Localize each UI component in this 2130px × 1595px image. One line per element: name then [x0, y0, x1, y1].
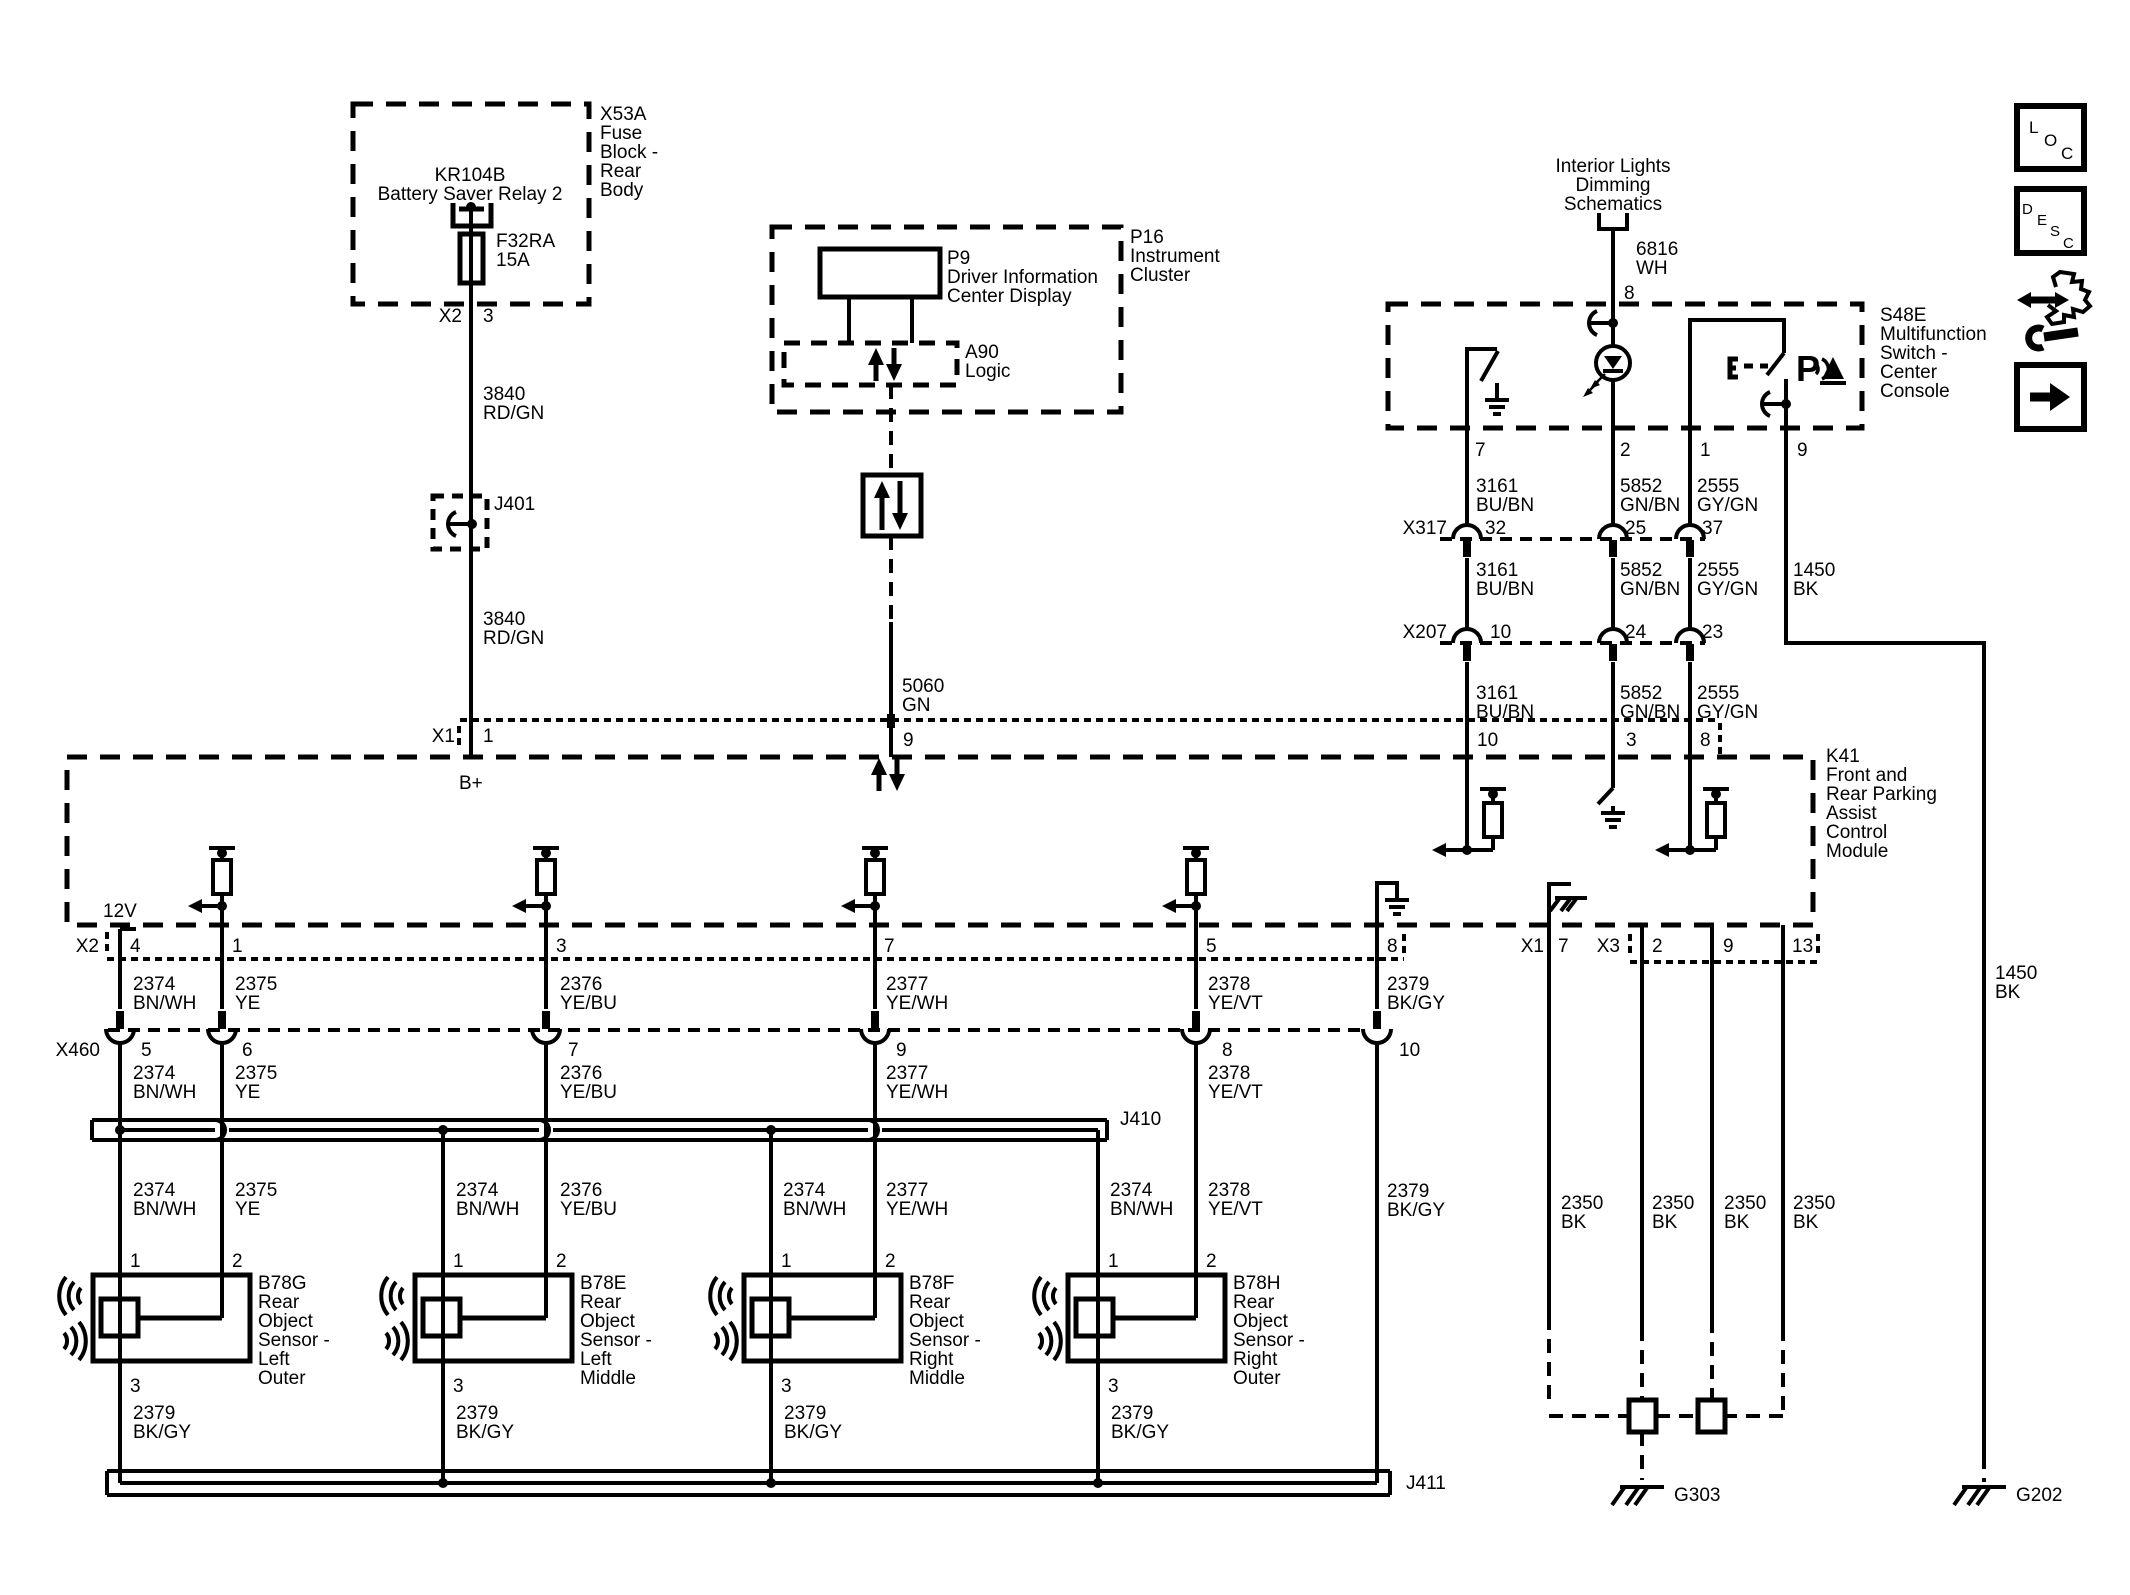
wire 2376 YE/BU [544, 925, 548, 1009]
icon DESC box [2017, 189, 2084, 253]
svg-text:GN/BN: GN/BN [1620, 495, 1680, 516]
svg-text:BK: BK [1793, 1212, 1819, 1233]
svg-text:C: C [2063, 235, 2074, 252]
svg-text:BN/WH: BN/WH [133, 1199, 196, 1220]
svg-text:12V: 12V [103, 901, 137, 922]
svg-text:YE/BU: YE/BU [560, 1082, 617, 1103]
sensor B78F Rear Object Sensor [744, 1275, 901, 1361]
wire to LED [1611, 304, 1615, 346]
svg-text:Object: Object [909, 1311, 965, 1332]
internal chassis ground X1-7 [1549, 884, 1571, 925]
svg-text:B78E: B78E [580, 1273, 626, 1294]
svg-text:13: 13 [1792, 936, 1813, 957]
svg-text:Rear: Rear [580, 1292, 622, 1313]
wire relay to fuse [469, 209, 473, 234]
svg-text:2379: 2379 [456, 1403, 498, 1424]
svg-text:Rear: Rear [1233, 1292, 1275, 1313]
svg-text:3161: 3161 [1476, 560, 1518, 581]
wire 3161 BU/BN S48E pin 7 to X317 pin 32 [1465, 428, 1469, 525]
svg-text:A90: A90 [965, 342, 999, 363]
svg-text:J401: J401 [494, 494, 535, 515]
connector J401 [433, 496, 487, 549]
svg-text:Outer: Outer [258, 1368, 306, 1389]
svg-text:5: 5 [1206, 936, 1217, 957]
wire 2377 YE/WH over J410 to sensor pin 2 [873, 1044, 877, 1318]
wire 2377 YE/WH [873, 925, 877, 1009]
svg-text:G202: G202 [2016, 1485, 2062, 1506]
svg-text:3: 3 [483, 306, 494, 327]
wire 2379 BK/GY from B78F [769, 1361, 773, 1483]
ground G303 [1620, 1485, 1664, 1489]
svg-text:10: 10 [1399, 1040, 1420, 1061]
svg-text:Middle: Middle [580, 1368, 636, 1389]
svg-text:Sensor -: Sensor - [580, 1330, 652, 1351]
svg-text:BU/BN: BU/BN [1476, 579, 1534, 600]
svg-text:5: 5 [141, 1040, 152, 1061]
svg-text:Object: Object [1233, 1311, 1289, 1332]
icon harness/wrench [2030, 297, 2056, 304]
svg-text:3: 3 [781, 1376, 792, 1397]
svg-text:GN: GN [902, 695, 931, 716]
svg-text:4: 4 [130, 936, 141, 957]
svg-text:8: 8 [1700, 730, 1711, 751]
icon LOC box [2017, 106, 2084, 169]
wire 1450 BK to G202 [1786, 428, 1984, 1455]
wire 2379 BK/GY [1375, 925, 1379, 1009]
wire 2378 YE/VT over J410 to sensor pin 2 [1194, 1044, 1198, 1318]
lamp branch: hook [1589, 311, 1597, 335]
svg-text:2: 2 [885, 1251, 896, 1272]
svg-text:Body: Body [600, 180, 644, 201]
svg-text:2374: 2374 [133, 974, 176, 995]
svg-text:Outer: Outer [1233, 1368, 1281, 1389]
J411 splice junction at x=443 [438, 1478, 448, 1488]
svg-text:BN/WH: BN/WH [456, 1199, 519, 1220]
svg-text:B+: B+ [459, 773, 483, 794]
svg-text:YE/WH: YE/WH [886, 1199, 948, 1220]
svg-text:2376: 2376 [560, 1180, 602, 1201]
svg-text:8: 8 [1222, 1040, 1233, 1061]
svg-text:P16: P16 [1130, 227, 1164, 248]
connector X460 cavity at wire x=875 [871, 1011, 879, 1029]
wire 2374 BN/WH J410 to B78F pin 1 [769, 1130, 773, 1275]
svg-text:5852: 5852 [1620, 476, 1662, 497]
svg-text:1: 1 [781, 1251, 792, 1272]
svg-text:1: 1 [130, 1251, 141, 1272]
fuse block X53A dashed box [353, 104, 589, 304]
svg-text:2374: 2374 [133, 1063, 176, 1084]
serial data link symbol [863, 475, 921, 536]
svg-text:Front and: Front and [1826, 765, 1907, 786]
connector X460 cavity at wire x=546 [542, 1011, 550, 1029]
svg-text:Middle: Middle [909, 1368, 965, 1389]
svg-text:Sensor -: Sensor - [1233, 1330, 1305, 1351]
svg-text:2376: 2376 [560, 1063, 602, 1084]
svg-text:X317: X317 [1403, 518, 1447, 539]
svg-text:B78F: B78F [909, 1273, 954, 1294]
svg-text:Console: Console [1880, 381, 1950, 402]
svg-text:D: D [2022, 201, 2033, 218]
svg-text:2374: 2374 [133, 1180, 176, 1201]
svg-text:3: 3 [1626, 730, 1637, 751]
wire 5852 GN/BN S48E pin 2 to X317 pin 25 [1611, 428, 1615, 525]
svg-text:G303: G303 [1674, 1485, 1720, 1506]
svg-text:3161: 3161 [1476, 476, 1518, 497]
svg-text:BN/WH: BN/WH [783, 1199, 846, 1220]
svg-text:Control: Control [1826, 822, 1887, 843]
E-- icon [1730, 359, 1738, 377]
resistor pull-up to 12V on wire 2375 [209, 846, 235, 850]
svg-text:2376: 2376 [560, 974, 602, 995]
wire P9 legs [847, 297, 851, 343]
svg-text:Rear: Rear [600, 161, 642, 182]
svg-text:Sensor -: Sensor - [258, 1330, 330, 1351]
sensor B78H Rear Object Sensor [1068, 1275, 1225, 1361]
splice boxes [1629, 1400, 1656, 1432]
svg-text:1: 1 [1108, 1251, 1119, 1272]
svg-text:6816: 6816 [1636, 239, 1678, 260]
svg-text:2374: 2374 [1110, 1180, 1153, 1201]
svg-text:Instrument: Instrument [1130, 246, 1220, 267]
svg-text:Schematics: Schematics [1564, 194, 1662, 215]
resistor pull-up to 12V on wire 2377 [862, 846, 888, 850]
svg-text:1: 1 [1700, 440, 1711, 461]
J410 splice junction at x=771 [766, 1125, 776, 1135]
svg-text:10: 10 [1490, 622, 1511, 643]
svg-text:2375: 2375 [235, 1180, 277, 1201]
svg-text:Right: Right [909, 1349, 954, 1370]
svg-text:X2: X2 [76, 936, 99, 957]
connector X207 cavity pin 24 [1599, 629, 1627, 643]
svg-text:Assist: Assist [1826, 803, 1877, 824]
svg-text:X53A: X53A [600, 104, 647, 125]
svg-text:2: 2 [1652, 936, 1663, 957]
svg-text:X3: X3 [1597, 936, 1620, 957]
logic A90 dashed box [784, 343, 957, 385]
svg-text:2379: 2379 [1387, 974, 1429, 995]
svg-text:3: 3 [556, 936, 567, 957]
svg-text:C: C [2061, 144, 2073, 163]
svg-text:Left: Left [258, 1349, 290, 1370]
connector X460 cavity at wire x=120 [116, 1011, 124, 1029]
svg-text:Battery Saver Relay 2: Battery Saver Relay 2 [378, 184, 563, 205]
resistor pull-up to 12V on wire 2376 [533, 846, 559, 850]
svg-text:L: L [2029, 118, 2038, 137]
wire pin4 tick [120, 927, 136, 931]
svg-text:2379: 2379 [1111, 1403, 1153, 1424]
svg-text:Interior Lights: Interior Lights [1555, 156, 1670, 177]
svg-text:RD/GN: RD/GN [483, 628, 544, 649]
svg-text:9: 9 [1723, 936, 1734, 957]
svg-text:YE/WH: YE/WH [886, 993, 948, 1014]
ground G202 [1962, 1485, 2006, 1489]
svg-text:2377: 2377 [886, 1063, 928, 1084]
svg-text:Center Display: Center Display [947, 286, 1072, 307]
svg-text:5060: 5060 [902, 676, 944, 697]
icon next-arrow box [2017, 365, 2084, 429]
svg-text:2378: 2378 [1208, 1180, 1250, 1201]
svg-text:2: 2 [1620, 440, 1631, 461]
serial data arrows in A90 [874, 364, 879, 381]
svg-text:Sensor -: Sensor - [909, 1330, 981, 1351]
wire 5852 GN/BN X207 to K41 X1 pin 3 [1611, 662, 1615, 788]
svg-text:X207: X207 [1403, 622, 1447, 643]
sensor B78G Rear Object Sensor [93, 1275, 250, 1361]
svg-text:9: 9 [903, 730, 914, 751]
svg-text:GY/GN: GY/GN [1697, 495, 1758, 516]
J410 conductor hop over wire at x=546 [539, 1120, 549, 1140]
switch to ground inside K41 [1598, 788, 1613, 804]
wire 2374 BN/WH J410 to B78E pin 1 [441, 1130, 445, 1275]
connector X460 cavity at wire x=222 [218, 1011, 226, 1029]
svg-text:2555: 2555 [1697, 476, 1739, 497]
svg-text:BU/BN: BU/BN [1476, 495, 1534, 516]
svg-text:YE/VT: YE/VT [1208, 993, 1263, 1014]
wire 2379 BK/GY from B78H [1096, 1361, 1100, 1483]
svg-text:B78G: B78G [258, 1273, 307, 1294]
display P9 [820, 249, 940, 297]
serial data arrows inside K41 [877, 774, 882, 791]
svg-text:2374: 2374 [783, 1180, 826, 1201]
resistor pull-up to 12V on wire 2378 [1183, 846, 1209, 850]
wire 2374 BN/WH [118, 929, 122, 1009]
svg-text:7: 7 [1475, 440, 1486, 461]
svg-text:3840: 3840 [483, 609, 525, 630]
wire 2350 BK K41 X3 pin 9 to G303 [1710, 925, 1714, 1319]
J411 splice junction at x=1098 [1093, 1478, 1103, 1488]
svg-text:2: 2 [1206, 1251, 1217, 1272]
wire 2376 YE/BU over J410 to sensor pin 2 [544, 1044, 548, 1318]
svg-text:32: 32 [1485, 518, 1506, 539]
svg-text:GN/BN: GN/BN [1620, 579, 1680, 600]
svg-text:KR104B: KR104B [435, 165, 506, 186]
connector X460 cavity at wire x=1196 [1192, 1011, 1200, 1029]
connector X2 dotted line [105, 932, 109, 956]
svg-text:BN/WH: BN/WH [1110, 1199, 1173, 1220]
svg-text:YE/VT: YE/VT [1208, 1199, 1263, 1220]
svg-text:7: 7 [568, 1040, 579, 1061]
svg-text:F32RA: F32RA [496, 231, 555, 252]
svg-text:2: 2 [556, 1251, 567, 1272]
multifunction switch S48E dashed box [1388, 304, 1862, 428]
svg-text:2375: 2375 [235, 1063, 277, 1084]
switch left branch pin 7 [1467, 349, 1497, 428]
svg-text:3: 3 [130, 1376, 141, 1397]
svg-text:Right: Right [1233, 1349, 1278, 1370]
svg-text:5852: 5852 [1620, 560, 1662, 581]
resistor pull-up to 12V on wire 3161 input [1480, 787, 1506, 791]
svg-text:O: O [2044, 131, 2057, 150]
svg-text:2378: 2378 [1208, 974, 1250, 995]
wire 2350 BK K41 X1 pin 7 to G303 [1547, 925, 1551, 1316]
svg-text:10: 10 [1477, 730, 1498, 751]
splice pack J411 [107, 1471, 1390, 1495]
connector X3 dotted line [1628, 934, 1632, 958]
J411 splice junction at x=771 [766, 1478, 776, 1488]
svg-text:8: 8 [1624, 283, 1635, 304]
svg-text:1: 1 [232, 936, 243, 957]
wire 2374 BN/WH to J410 and B78G pin 1 [118, 1044, 122, 1275]
svg-text:B78H: B78H [1233, 1273, 1281, 1294]
svg-text:9: 9 [896, 1040, 907, 1061]
wire 2350 BK K41 X3 pin 2 to G303 [1640, 925, 1644, 1327]
svg-text:YE/BU: YE/BU [560, 993, 617, 1014]
svg-text:2555: 2555 [1697, 683, 1739, 704]
wire 5060 GN [889, 536, 893, 622]
J410 conductor [120, 1128, 1098, 1132]
svg-text:BK/GY: BK/GY [133, 1422, 191, 1443]
svg-text:GY/GN: GY/GN [1697, 579, 1758, 600]
svg-text:Logic: Logic [965, 361, 1010, 382]
svg-text:8: 8 [1387, 936, 1398, 957]
svg-text:BK/GY: BK/GY [784, 1422, 842, 1443]
wire 2374 BN/WH J410 to B78H pin 1 [1096, 1130, 1100, 1275]
svg-text:2377: 2377 [886, 974, 928, 995]
svg-text:YE: YE [235, 993, 260, 1014]
instrument cluster P16 dashed box [772, 227, 1121, 412]
wire 2375 YE over J410 to sensor pin 2 [220, 1044, 224, 1318]
wire 2379 BK/GY from B78E [441, 1361, 445, 1483]
svg-text:WH: WH [1636, 258, 1668, 279]
wire 2378 YE/VT [1194, 925, 1198, 1009]
svg-text:BK/GY: BK/GY [456, 1422, 514, 1443]
svg-text:2377: 2377 [886, 1180, 928, 1201]
svg-text:RD/GN: RD/GN [483, 403, 544, 424]
svg-text:BK: BK [1995, 982, 2021, 1003]
svg-text:X1: X1 [1521, 936, 1544, 957]
svg-text:3840: 3840 [483, 384, 525, 405]
svg-text:2555: 2555 [1697, 560, 1739, 581]
svg-text:Fuse: Fuse [600, 123, 642, 144]
svg-text:GY/GN: GY/GN [1697, 702, 1758, 723]
svg-text:2379: 2379 [1387, 1181, 1429, 1202]
J410 conductor hop over wire at x=875 [868, 1120, 878, 1140]
svg-text:Driver Information: Driver Information [947, 267, 1098, 288]
svg-text:J411: J411 [1406, 1473, 1446, 1494]
connector X207 cavity pin 23 [1676, 629, 1704, 643]
wire 3840 RD/GN fuse to J401 [469, 283, 473, 755]
svg-text:YE/BU: YE/BU [560, 1199, 617, 1220]
connector X1 dotted line [460, 718, 1720, 722]
svg-text:Dimming: Dimming [1576, 175, 1651, 196]
svg-text:Switch -: Switch - [1880, 343, 1948, 364]
svg-text:2378: 2378 [1208, 1063, 1250, 1084]
svg-text:1: 1 [453, 1251, 464, 1272]
svg-text:Left: Left [580, 1349, 612, 1370]
svg-text:9: 9 [1797, 440, 1808, 461]
LED lamp [1596, 346, 1630, 380]
svg-text:2350: 2350 [1652, 1193, 1694, 1214]
svg-text:2: 2 [232, 1251, 243, 1272]
wire 6816 WH [1611, 231, 1615, 304]
svg-text:BK: BK [1561, 1212, 1587, 1233]
svg-text:S: S [2050, 223, 2060, 240]
svg-text:15A: 15A [496, 250, 530, 271]
svg-text:P9: P9 [947, 248, 970, 269]
wire dashed A90 to data link [889, 385, 893, 475]
svg-text:BN/WH: BN/WH [133, 1082, 196, 1103]
svg-text:BK: BK [1724, 1212, 1750, 1233]
J410 conductor hop over wire at x=222 [215, 1120, 225, 1140]
svg-text:BN/WH: BN/WH [133, 993, 196, 1014]
svg-text:7: 7 [884, 936, 895, 957]
svg-text:YE/VT: YE/VT [1208, 1082, 1263, 1103]
relay KR104B contact [453, 203, 491, 226]
splice pack J410 [92, 1120, 1107, 1140]
svg-text:X1: X1 [432, 726, 455, 747]
svg-text:2375: 2375 [235, 974, 277, 995]
resistor pull-up to 12V on wire 2555 input [1703, 787, 1729, 791]
svg-text:E: E [2037, 212, 2047, 229]
svg-text:1450: 1450 [1793, 560, 1835, 581]
wire 2555 GY/GN X207 to K41 X1 pin 8 [1688, 662, 1692, 850]
module K41 Front and Rear Parking Assist Control Module [67, 757, 1813, 925]
svg-text:2350: 2350 [1793, 1193, 1835, 1214]
svg-text:5852: 5852 [1620, 683, 1662, 704]
svg-text:BK/GY: BK/GY [1111, 1422, 1169, 1443]
svg-text:Object: Object [580, 1311, 636, 1332]
fuse F32RA 15A [460, 234, 483, 283]
svg-text:2350: 2350 [1724, 1193, 1766, 1214]
svg-text:J410: J410 [1120, 1109, 1161, 1130]
svg-text:S48E: S48E [1880, 305, 1926, 326]
svg-text:1: 1 [483, 726, 494, 747]
svg-text:Multifunction: Multifunction [1880, 324, 1987, 345]
svg-text:2379: 2379 [784, 1403, 826, 1424]
sensor B78E Rear Object Sensor [415, 1275, 572, 1361]
svg-text:2374: 2374 [456, 1180, 499, 1201]
svg-text:BK: BK [1793, 579, 1819, 600]
svg-text:BK/GY: BK/GY [1387, 1200, 1445, 1221]
internal ground pin8 [1377, 883, 1397, 925]
svg-text:Center: Center [1880, 362, 1938, 383]
svg-text:Rear: Rear [909, 1292, 951, 1313]
svg-text:BK/GY: BK/GY [1387, 993, 1445, 1014]
svg-text:YE: YE [235, 1199, 260, 1220]
svg-text:YE: YE [235, 1082, 260, 1103]
connector X207 cavity pin 10 [1453, 629, 1481, 643]
wire 2379 BK/GY from B78G [118, 1361, 122, 1483]
svg-text:YE/WH: YE/WH [886, 1082, 948, 1103]
wire 2350 BK K41 X3 pin 13 to G303 [1781, 925, 1785, 1327]
svg-text:K41: K41 [1826, 746, 1860, 767]
J410 splice junction at x=120 [115, 1125, 125, 1135]
svg-text:2379: 2379 [133, 1403, 175, 1424]
svg-text:Block -: Block - [600, 142, 658, 163]
wire 2375 YE [220, 925, 224, 1009]
svg-text:Rear Parking: Rear Parking [1826, 784, 1937, 805]
svg-text:6: 6 [242, 1040, 253, 1061]
svg-text:3: 3 [1108, 1376, 1119, 1397]
svg-text:Cluster: Cluster [1130, 265, 1191, 286]
svg-text:1450: 1450 [1995, 963, 2037, 984]
svg-text:3: 3 [453, 1376, 464, 1397]
wire 2555 GY/GN S48E pin 1 to X317 pin 37 [1688, 428, 1692, 525]
svg-text:3161: 3161 [1476, 683, 1518, 704]
wire 3161 BU/BN X207 to K41 X1 pin 10 [1465, 662, 1469, 850]
svg-text:Module: Module [1826, 841, 1888, 862]
svg-text:BK: BK [1652, 1212, 1678, 1233]
svg-text:Object: Object [258, 1311, 314, 1332]
connector X460 cavity at wire x=1377 [1373, 1011, 1381, 1029]
svg-text:Rear: Rear [258, 1292, 300, 1313]
svg-text:X460: X460 [56, 1040, 100, 1061]
svg-text:7: 7 [1558, 936, 1569, 957]
svg-text:X2: X2 [439, 306, 462, 327]
svg-text:2350: 2350 [1561, 1193, 1603, 1214]
switch right branch pins 1/9 [1690, 320, 1784, 428]
J410 splice junction at x=443 [438, 1125, 448, 1135]
